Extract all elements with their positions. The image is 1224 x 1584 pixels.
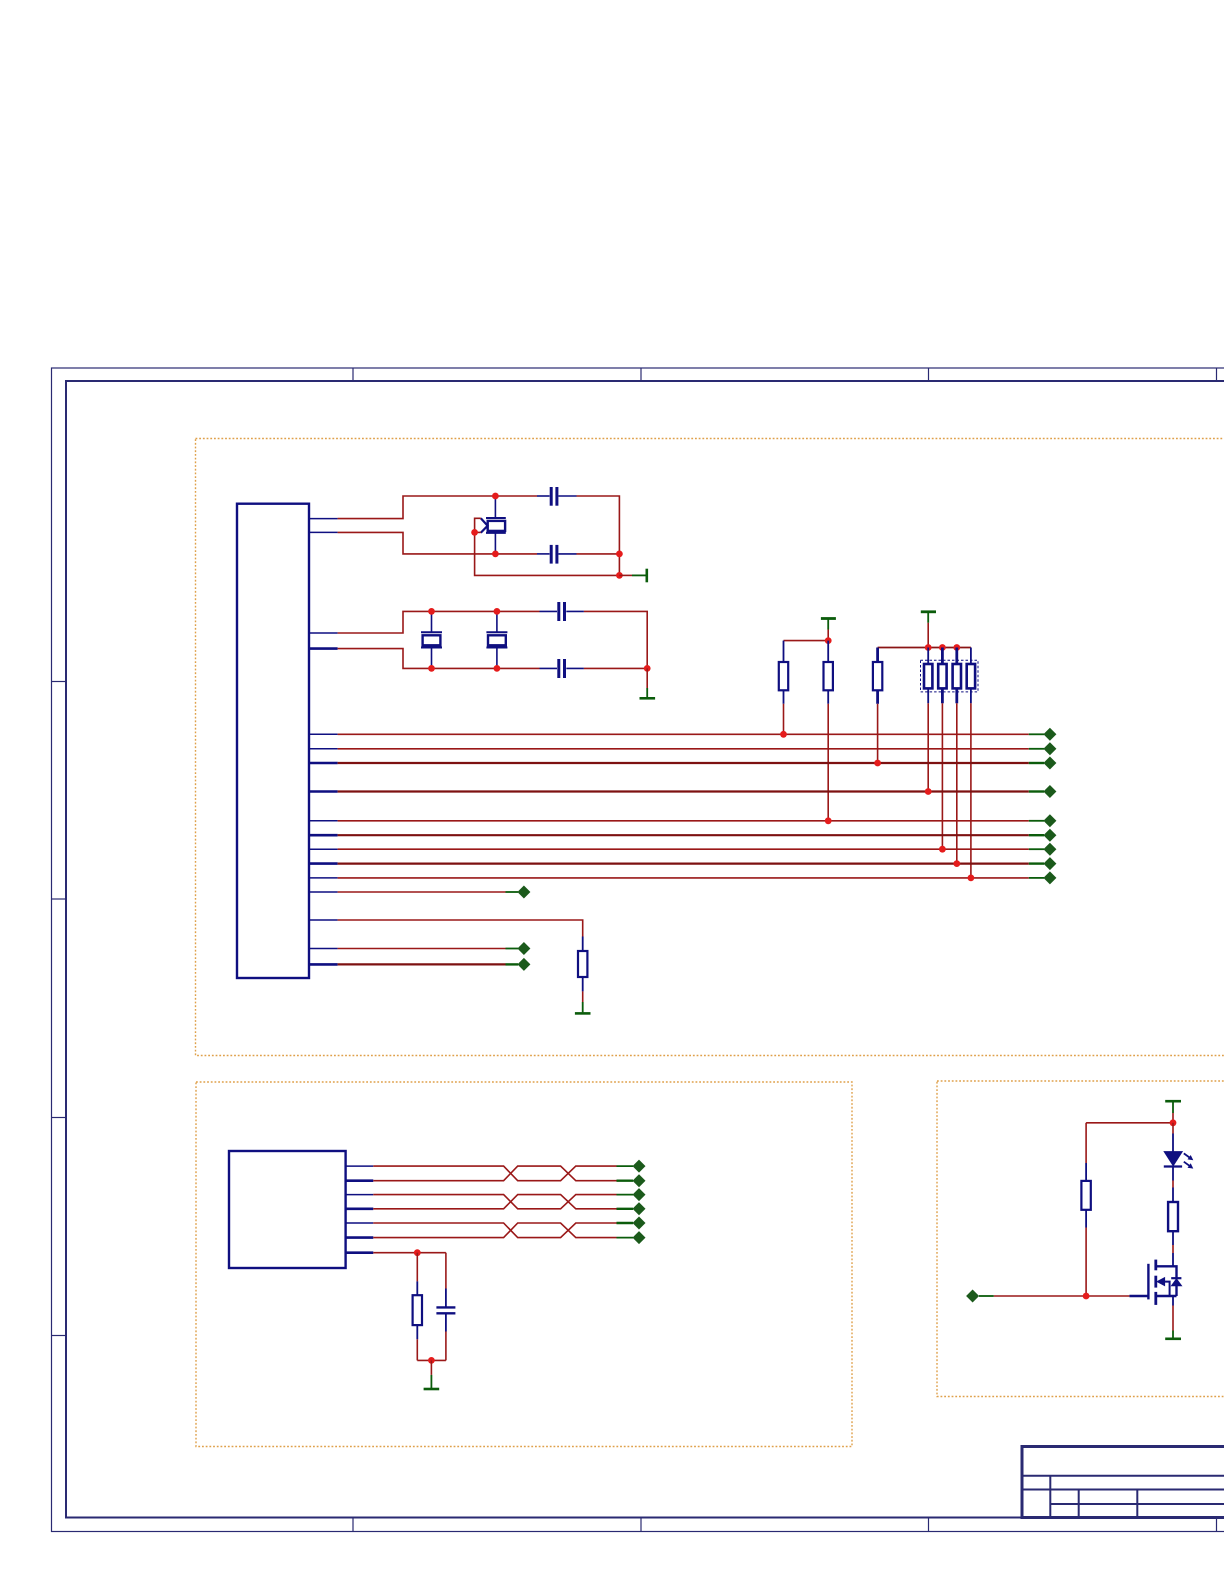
substrate arrow bbox=[1157, 1278, 1164, 1286]
section box ethernet (bottom left) bbox=[196, 1082, 852, 1447]
wire XTAL1 net (pin1 to crystal top rail) bbox=[338, 496, 537, 519]
pin 15 stub U1 bbox=[309, 919, 338, 921]
terminal diamond TP3+ bbox=[617, 1217, 646, 1230]
SECTION BOXES (orange dotted) bbox=[196, 439, 1224, 1447]
junction bus row 9 RP1d bbox=[968, 875, 975, 882]
junction RP top 1 bbox=[925, 644, 932, 651]
source lead bbox=[1156, 1295, 1177, 1297]
capacitor C2 left lead bbox=[537, 553, 550, 555]
terminal diamond TP1+ bbox=[617, 1160, 646, 1173]
crystal X1 case chevron bbox=[481, 518, 488, 533]
pin 5 stub U1 bbox=[309, 733, 338, 735]
wire row 12 (pin16) bbox=[338, 948, 506, 950]
junction bus row 1 R1 bbox=[780, 731, 787, 738]
title block column line 3 bbox=[1136, 1490, 1138, 1518]
wire C2 to ground rail bbox=[577, 553, 620, 555]
ground terminal GND5 (below R4) bbox=[575, 991, 591, 1013]
LED D1 light arrows bbox=[1184, 1153, 1194, 1168]
wire row 11 (pin15 to R4) bbox=[338, 920, 583, 937]
wire source to ground bbox=[1172, 1296, 1174, 1331]
channel segment top bbox=[1154, 1260, 1157, 1271]
pin 1 stub U2 bbox=[346, 1165, 374, 1167]
wire resistor-pack top rail bbox=[878, 647, 971, 649]
ground terminal GND3 (above R1 R2) bbox=[821, 619, 836, 641]
wire bus row 3 bbox=[338, 762, 1029, 764]
pin 6 stub U2 bbox=[346, 1236, 374, 1239]
resistor R7 bbox=[1081, 1181, 1090, 1296]
junction bus row 5 R2 bbox=[825, 817, 832, 824]
junction right rail bottom bbox=[644, 665, 651, 672]
junction ground rail bottom bbox=[616, 572, 623, 579]
pin 13 stub U1 bbox=[309, 877, 338, 879]
ground terminal GND4 (above resistor pack) bbox=[921, 612, 936, 648]
wire twisted pair 1 line B bbox=[373, 1166, 616, 1181]
terminal diamond row 13 bbox=[506, 958, 531, 971]
pin 5 stub U2 bbox=[346, 1222, 374, 1224]
sheet outer border bbox=[52, 368, 1224, 1532]
terminal diamond TP2- bbox=[617, 1202, 646, 1215]
substrate lead bbox=[1165, 1282, 1170, 1296]
pin 16 stub U1 bbox=[309, 948, 338, 950]
border tick bottom 3 bbox=[928, 1518, 930, 1532]
ground terminal GND6 (below RC) bbox=[424, 1360, 440, 1389]
terminal diamond row 12 bbox=[506, 942, 531, 955]
pin 2 stub U2 bbox=[346, 1179, 374, 1182]
pin 4 stub U2 bbox=[346, 1208, 374, 1211]
terminal diamond row 7 bbox=[1029, 843, 1057, 856]
border tick bottom 2 bbox=[640, 1518, 642, 1532]
terminal diamond row 4 bbox=[1029, 785, 1057, 798]
junction bus row 3 R3 bbox=[874, 760, 881, 767]
wire bus row 7 bbox=[338, 848, 1029, 850]
pin 10 stub U1 bbox=[309, 834, 338, 837]
resistor R2 bbox=[824, 641, 833, 821]
resistor R5 bbox=[413, 1253, 422, 1361]
crystal X3 bottom lead bbox=[496, 647, 498, 668]
wire OSC2 net (pin4 to resonator bottom rail) bbox=[338, 649, 540, 669]
body diode cathode bar bbox=[1171, 1277, 1181, 1279]
border tick bottom 1 bbox=[352, 1518, 354, 1532]
terminal diamond row 2 bbox=[1029, 742, 1057, 755]
border tick bottom 4 bbox=[1216, 1518, 1218, 1532]
pin 11 stub U1 bbox=[309, 848, 338, 850]
resistor RP1c bbox=[953, 648, 961, 864]
title block column line 1 bbox=[1049, 1476, 1051, 1518]
pin 4 stub U1 OSC2 bbox=[309, 647, 338, 650]
IC U1 (MCU) bbox=[237, 504, 309, 978]
wire twisted pair 3 line A bbox=[373, 1223, 616, 1238]
junction X1 case bbox=[471, 529, 478, 536]
wire twisted pair 2 line B bbox=[373, 1195, 616, 1209]
wire R1 R2 top rail bbox=[784, 640, 829, 642]
junction bus row 7 RP1b bbox=[939, 846, 946, 853]
junction C2 ground rail bbox=[616, 551, 623, 558]
pin 1 stub U1 XTAL1 bbox=[309, 518, 338, 520]
crystal X3 bbox=[486, 632, 507, 647]
title block column line 2 bbox=[1078, 1490, 1080, 1518]
wire R6 to MOSFET drain bbox=[1172, 1245, 1174, 1266]
pin 3 stub U1 OSC1 bbox=[309, 632, 338, 634]
pin 12 stub U1 bbox=[309, 862, 338, 865]
drain lead bbox=[1156, 1266, 1177, 1278]
wire bus row 9 bbox=[338, 877, 1029, 879]
wire OSC1 net (pin3 to resonator top rail) bbox=[338, 611, 540, 633]
pin 8 stub U1 bbox=[309, 790, 338, 793]
wire bus row 2 bbox=[338, 748, 1029, 750]
resistor R7 top wire bbox=[1085, 1123, 1087, 1181]
wire C4 to right rail bbox=[584, 667, 647, 669]
LED D1 bbox=[1164, 1123, 1182, 1181]
resistor RP1b bbox=[938, 648, 946, 850]
ground terminal GND2 (pointing down) bbox=[640, 668, 656, 698]
border tick left 4 bbox=[52, 1335, 67, 1337]
wire bus row 6 bbox=[338, 834, 1029, 836]
capacitor C3 left lead bbox=[540, 610, 558, 612]
wire ground rail vertical bbox=[618, 554, 620, 576]
border tick top 4 bbox=[1216, 368, 1218, 381]
wire twisted pair 1 line A bbox=[373, 1166, 616, 1181]
resistor RP1a bbox=[924, 648, 932, 792]
junction top rail LED bbox=[1170, 1119, 1177, 1126]
wire C3 to right rail bbox=[584, 611, 647, 668]
junction X2 top bbox=[428, 608, 435, 615]
power terminal VCC (top bar) bbox=[1165, 1101, 1181, 1123]
wire XTAL2 net (pin2 to crystal bottom rail) bbox=[338, 532, 537, 554]
section box LED driver (bottom right) bbox=[937, 1081, 1224, 1397]
wire row 10 (pin14) bbox=[338, 891, 506, 893]
resistor pack dashed box RP1 bbox=[921, 660, 979, 692]
capacitor C2 bbox=[551, 545, 557, 564]
pin 2 stub U1 XTAL2 bbox=[309, 531, 338, 533]
resistor RP1d bbox=[967, 648, 975, 878]
pin 3 stub U2 bbox=[346, 1194, 374, 1196]
crystal X1 bottom lead bbox=[494, 533, 496, 554]
junction RC bottom bbox=[428, 1357, 435, 1364]
wire gate net bbox=[994, 1295, 1130, 1297]
terminal diamond row 1 bbox=[1029, 728, 1057, 741]
resistor R6 bbox=[1168, 1202, 1178, 1245]
crystal X2 top lead bbox=[431, 611, 433, 632]
border tick top 1 bbox=[352, 368, 354, 381]
junction X2 bottom bbox=[428, 665, 435, 672]
crystal X1 bbox=[486, 518, 506, 533]
border tick top 3 bbox=[928, 368, 930, 381]
terminal diamond row 10 bbox=[506, 886, 531, 899]
junction RC top bbox=[414, 1249, 421, 1256]
capacitor C4 left lead bbox=[540, 667, 558, 669]
body diode to source bbox=[1175, 1286, 1177, 1296]
capacitor C1 right lead bbox=[558, 495, 576, 497]
capacitor C1 bbox=[551, 487, 557, 506]
IC U2 (transformer block) bbox=[229, 1151, 346, 1268]
terminal diamond TP3- bbox=[617, 1231, 646, 1244]
title block row line 1 bbox=[1022, 1475, 1224, 1477]
junction bus row 4 RP1a bbox=[925, 788, 932, 795]
pin 14 stub U1 bbox=[309, 891, 338, 893]
ground terminal GND1 (pointing right) bbox=[619, 569, 646, 583]
wire twisted pair 3 line B bbox=[373, 1223, 616, 1238]
pin 7 stub U1 bbox=[309, 762, 338, 765]
wire bus row 4 bbox=[338, 790, 1029, 792]
channel segment middle bbox=[1154, 1276, 1157, 1288]
crystal X3 top lead bbox=[496, 611, 498, 632]
sheet inner border bbox=[66, 381, 1224, 1518]
wire crystal case loop bbox=[475, 518, 620, 575]
resistor R1 bbox=[779, 641, 788, 735]
crystal X1 top lead bbox=[494, 496, 496, 518]
junction RP top 3 bbox=[953, 644, 960, 651]
wire bus row 8 bbox=[338, 862, 1029, 864]
title block outer box bbox=[1022, 1447, 1224, 1518]
junction bus row 8 RP1c bbox=[953, 860, 960, 867]
junction R2 top bbox=[825, 637, 832, 644]
terminal diamond row 8 bbox=[1029, 857, 1057, 870]
crystal X2 bottom lead bbox=[431, 647, 433, 668]
terminal diamond gate input bbox=[966, 1290, 994, 1303]
terminal diamond TP1- bbox=[617, 1174, 646, 1187]
wire top rail bbox=[1086, 1122, 1173, 1124]
terminal diamond row 9 bbox=[1029, 871, 1057, 884]
transistor Q1 (N-MOSFET) bbox=[1129, 1260, 1181, 1305]
pin 9 stub U1 bbox=[309, 820, 338, 822]
wire C1 to ground rail bbox=[577, 496, 620, 554]
pin 7 stub U2 bbox=[346, 1251, 374, 1254]
terminal diamond row 5 bbox=[1029, 814, 1057, 827]
wire LED to R6 bbox=[1172, 1181, 1174, 1203]
junction X1 top bbox=[492, 493, 499, 500]
resistor R3 bbox=[873, 648, 882, 764]
wire center tap (pin7) bbox=[373, 1252, 446, 1254]
wire RC bottom bbox=[417, 1359, 446, 1361]
TITLE BLOCK bbox=[1022, 1447, 1224, 1518]
border tick left 2 bbox=[52, 898, 67, 900]
junction X3 bottom bbox=[494, 665, 501, 672]
wire bus row 5 bbox=[338, 820, 1029, 822]
capacitor C4 right lead bbox=[566, 667, 584, 669]
title block row line 3 bbox=[1050, 1503, 1224, 1505]
gate bar bbox=[1147, 1264, 1149, 1300]
body diode triangle bbox=[1172, 1279, 1182, 1286]
junction gate net R7 bbox=[1083, 1293, 1090, 1300]
wire twisted pair 2 line A bbox=[373, 1195, 616, 1209]
border tick top 2 bbox=[640, 368, 642, 381]
junction X3 top bbox=[494, 608, 501, 615]
capacitor C3 bbox=[559, 602, 565, 621]
channel segment bottom bbox=[1154, 1292, 1157, 1305]
capacitor C2 right lead bbox=[558, 553, 576, 555]
terminal diamond row 3 bbox=[1029, 757, 1057, 770]
terminal diamond row 6 bbox=[1029, 829, 1057, 842]
section box MCU (top) bbox=[196, 439, 1224, 1056]
pin 6 stub U1 bbox=[309, 748, 338, 750]
terminal diamond TP2+ bbox=[617, 1188, 646, 1201]
wire bus row 1 bbox=[338, 733, 1029, 735]
wire row 13 (pin17) bbox=[338, 963, 506, 965]
ground terminal GND7 (below Q1) bbox=[1165, 1331, 1181, 1339]
junction RP top 2 bbox=[939, 644, 946, 651]
junction X1 bottom bbox=[492, 551, 499, 558]
resistor R4 bbox=[578, 937, 587, 992]
capacitor C4 bbox=[559, 659, 565, 678]
wire case chevron bottom tie bbox=[475, 531, 481, 533]
capacitor C1 left lead bbox=[537, 495, 550, 497]
crystal X2 bbox=[421, 632, 442, 647]
capacitor C3 right lead bbox=[566, 610, 584, 612]
border tick left 3 bbox=[52, 1117, 67, 1119]
gate lead bbox=[1129, 1295, 1148, 1297]
title block row line 2 bbox=[1022, 1489, 1224, 1491]
border tick left 1 bbox=[52, 681, 67, 683]
pin 17 stub U1 bbox=[309, 963, 338, 966]
capacitor C5 bbox=[436, 1253, 455, 1361]
